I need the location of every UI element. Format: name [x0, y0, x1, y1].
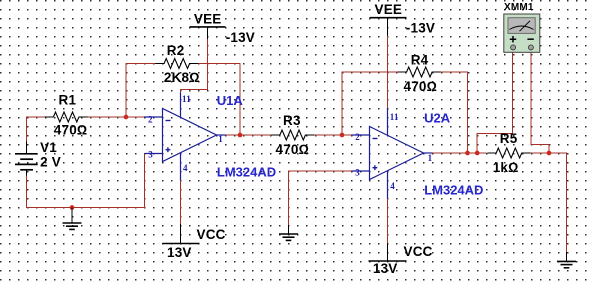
op-amp U1A	[144, 93, 226, 181]
svg-text:4: 4	[390, 181, 395, 191]
wire: U2A output to R5 left	[433, 152, 487, 154]
svg-text:470Ω: 470Ω	[276, 142, 310, 157]
wire: R2 right feedback to U1A output	[199, 64, 241, 136]
svg-text:XMM1: XMM1	[504, 2, 534, 13]
node: battery/ground junction	[70, 205, 75, 210]
svg-text:LM324AD: LM324AD	[217, 165, 276, 180]
svg-text:13V: 13V	[167, 245, 192, 260]
svg-text:U1A: U1A	[217, 93, 244, 108]
power VCC right	[369, 244, 407, 261]
wire: XMM1 plus terminal down to output node	[477, 53, 512, 154]
svg-text:1kΩ: 1kΩ	[493, 160, 519, 175]
svg-text:R2: R2	[167, 43, 185, 58]
ground (battery loop)	[63, 208, 82, 230]
svg-text:11: 11	[390, 112, 399, 122]
svg-text:2: 2	[355, 132, 360, 142]
ground (right, R5)	[557, 252, 576, 268]
svg-text:R4: R4	[411, 52, 429, 67]
wire: VEE right down to U2A pin11	[387, 36, 389, 108]
node: R1/R2/pin2 junction	[124, 115, 129, 120]
svg-text:1: 1	[218, 134, 223, 144]
wire: R3 right to U2A pin2	[314, 134, 351, 136]
node: XMM1 minus/ground tap junction	[547, 151, 552, 156]
wire: node up to R4 left	[342, 72, 398, 135]
svg-text:R3: R3	[283, 113, 301, 128]
multimeter XMM1	[504, 14, 540, 52]
wire: U2A pin4 down to VCC right	[387, 199, 389, 244]
wire: VEE left down to U1A pin11	[181, 39, 208, 93]
power VEE left	[190, 27, 226, 39]
svg-text:13V: 13V	[373, 261, 398, 276]
wire: XMM1 minus terminal down to R5 right node	[531, 53, 549, 154]
svg-text:2 V: 2 V	[40, 154, 61, 169]
svg-text:LM324AD: LM324AD	[424, 183, 483, 198]
svg-text:VCC: VCC	[197, 227, 226, 242]
svg-text:VEE: VEE	[194, 11, 222, 26]
wire: ground to U2A pin3	[289, 171, 352, 225]
node: U1A output/R2 feedback junction	[238, 133, 243, 138]
svg-text:2K8Ω: 2K8Ω	[164, 70, 200, 85]
wire: U1A pin4 down to VCC left	[180, 181, 182, 225]
wire: battery bottom loop to U1A pin3	[27, 154, 145, 208]
wire: R4 right feedback down to U2A output	[441, 72, 468, 153]
svg-text:1: 1	[428, 153, 433, 163]
svg-text:4: 4	[183, 163, 188, 173]
battery V1	[15, 142, 38, 176]
node: R3/R4/U2A pin2 junction	[340, 133, 345, 138]
op-amp U2A	[352, 108, 433, 199]
svg-text:470Ω: 470Ω	[54, 122, 88, 137]
svg-text:-13V: -13V	[406, 21, 435, 36]
svg-text:-13V: -13V	[226, 30, 255, 45]
resistor R3	[271, 130, 314, 140]
wire: R1 right to U1A pin2	[88, 116, 144, 118]
svg-text:VCC: VCC	[404, 244, 433, 259]
svg-text:3: 3	[355, 167, 360, 177]
svg-text:V1: V1	[40, 140, 57, 155]
svg-text:3: 3	[148, 149, 153, 159]
resistor R5	[487, 148, 530, 158]
svg-text:VEE: VEE	[375, 2, 403, 17]
wire: U1A output to R3 left	[226, 134, 272, 136]
power VCC left	[163, 224, 200, 244]
svg-text:U2A: U2A	[424, 110, 451, 125]
svg-text:11: 11	[182, 94, 191, 104]
svg-text:2: 2	[148, 115, 153, 125]
svg-text:470Ω: 470Ω	[404, 79, 438, 94]
resistor R1	[45, 112, 88, 122]
power VEE right	[370, 18, 407, 36]
node: U2A output/R4 feedback junction	[465, 151, 470, 156]
wire: R5 right to ground right	[531, 153, 567, 252]
resistor R2	[155, 59, 198, 69]
svg-text:R5: R5	[500, 131, 518, 146]
svg-text:R1: R1	[59, 93, 77, 108]
resistor R4	[398, 67, 441, 77]
ground (U2A pin3)	[279, 225, 298, 240]
wire: battery V1 top to R1 left	[27, 117, 45, 142]
node: XMM1 plus tap junction	[475, 151, 480, 156]
wire: node up to R2 left	[126, 64, 156, 118]
